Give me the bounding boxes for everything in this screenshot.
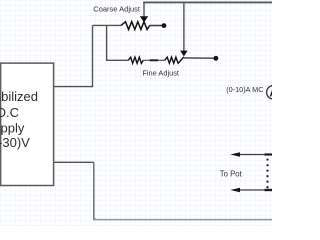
fine middle tap tick	[150, 59, 158, 61]
svg-text:(0-30)V: (0-30)V	[0, 135, 30, 150]
arrowhead to pot lower	[230, 188, 240, 193]
svg-text:D.C: D.C	[0, 105, 19, 120]
coarse wiper arrow	[140, 16, 148, 22]
resistor fine half 1 zigzag	[128, 57, 143, 63]
svg-text:Supply: Supply	[0, 121, 25, 136]
wire supply+ to coarse node	[54, 25, 93, 86]
arrowhead to pot upper	[230, 152, 240, 157]
ammeter M1 circle	[267, 86, 281, 100]
svg-text:Fine Adjust: Fine Adjust	[142, 69, 179, 78]
svg-text:(0-10)A MC: (0-10)A MC	[226, 85, 263, 94]
node dot coarse output	[162, 23, 167, 28]
junction dot lower to-pot	[265, 189, 273, 191]
wire supply- horizontal	[54, 161, 94, 163]
wire coarse left lead	[93, 24, 122, 26]
top supply rail wire	[143, 1, 272, 3]
svg-text:Coarse Adjust: Coarse Adjust	[93, 5, 141, 14]
wire fine right lead	[184, 57, 214, 59]
stabilized DC supply box U1	[1, 63, 54, 185]
svg-text:To Pot: To Pot	[220, 169, 243, 178]
wire fine middle link	[143, 59, 165, 61]
wire coarse right lead	[150, 25, 163, 27]
wire to pot lower	[240, 189, 273, 191]
fine wiper arrow	[180, 51, 187, 57]
bottom return rail wire	[93, 219, 272, 221]
svg-text:A: A	[269, 87, 272, 99]
wire fine left drop	[107, 25, 129, 60]
resistor fine half 2 zigzag	[165, 57, 184, 63]
wire supply- vertical drop	[94, 162, 96, 219]
coarse wiper wire	[143, 2, 145, 17]
fine wiper wire	[183, 2, 185, 51]
junction dot upper to-pot	[265, 153, 273, 155]
wire to pot upper	[240, 154, 273, 156]
node dot fine output	[214, 56, 219, 61]
potentiometer R1 Coarse Adjust zigzag	[121, 22, 150, 30]
dotted gang link	[266, 158, 268, 188]
svg-text:Stabilized: Stabilized	[0, 89, 38, 104]
